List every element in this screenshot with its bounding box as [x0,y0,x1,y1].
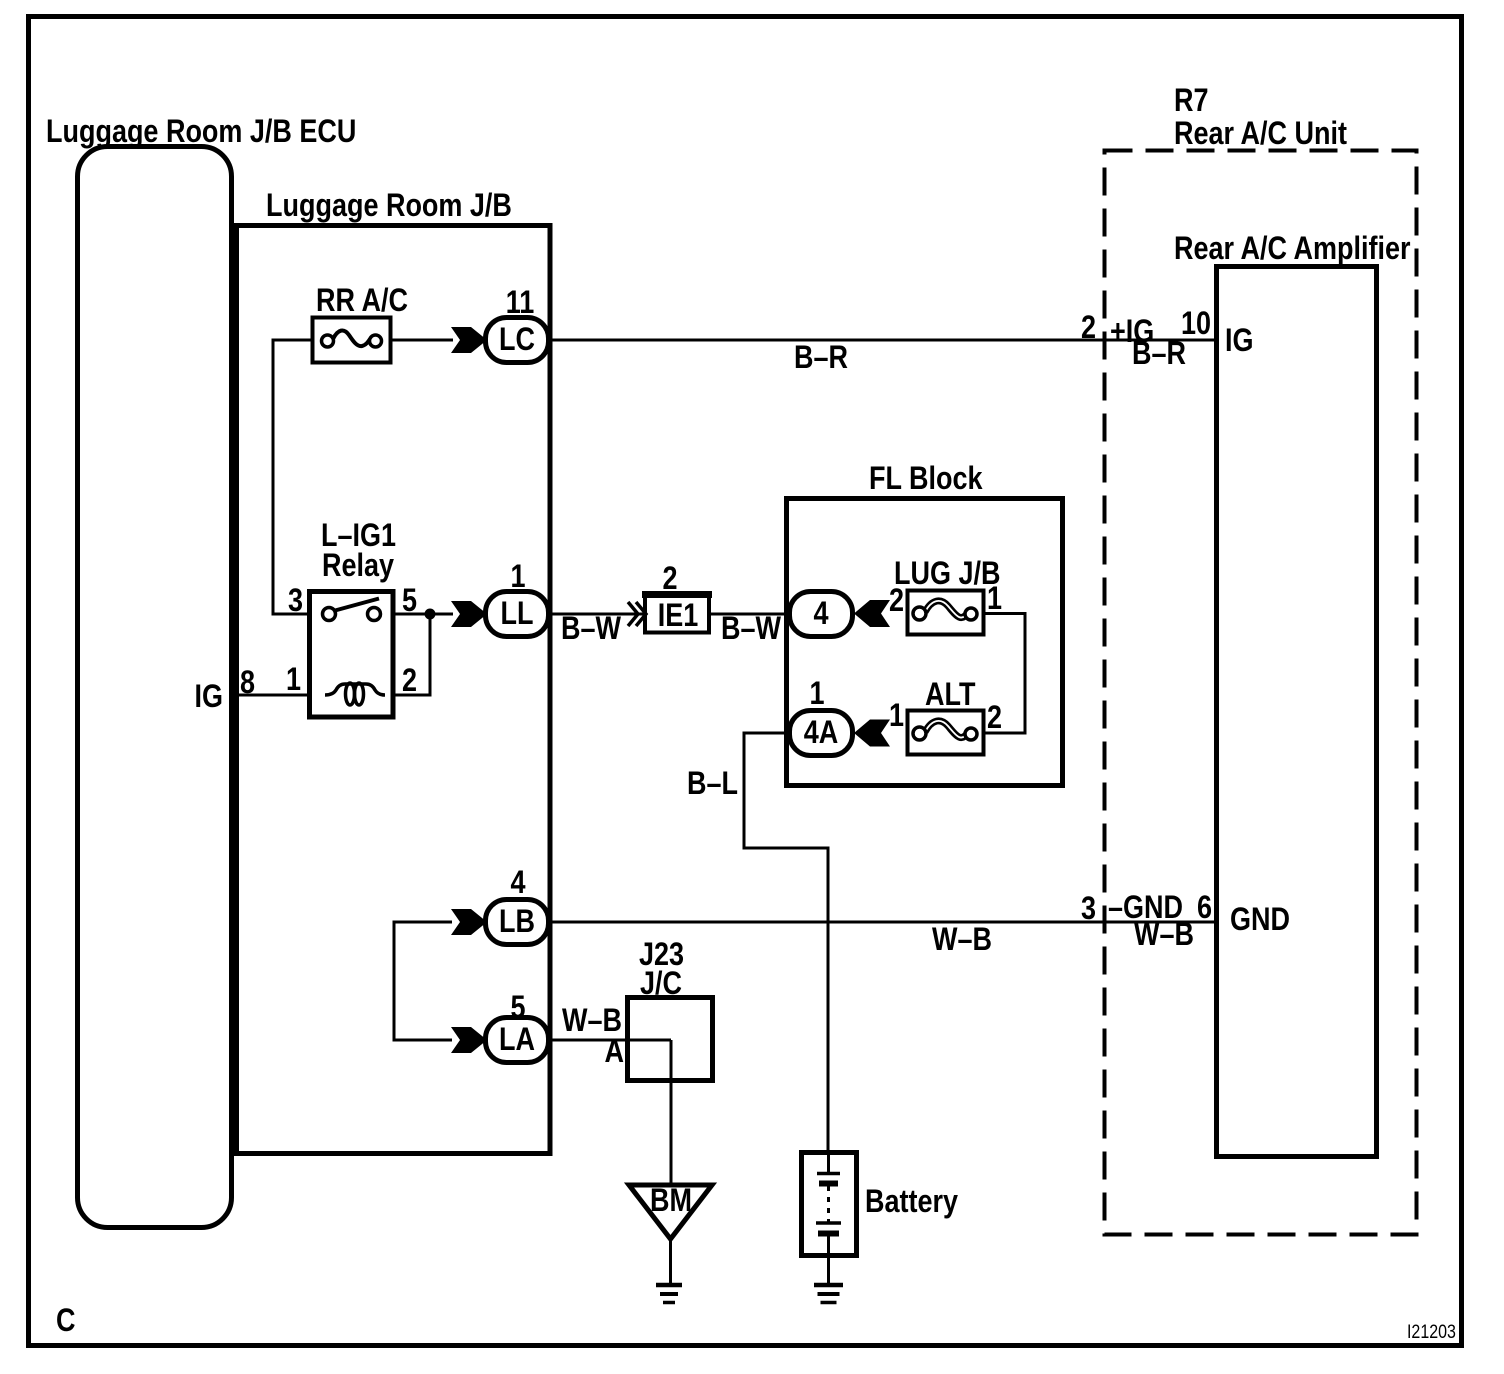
junction node dot [425,609,436,620]
connector LA [486,1018,549,1063]
FL Block box [787,499,1063,786]
svg-text:1: 1 [889,698,904,734]
svg-text:2: 2 [987,700,1002,736]
svg-text:W–B: W–B [1134,917,1194,953]
fusible link ALT [908,711,984,755]
svg-text:2: 2 [1081,310,1096,346]
fuse RR A/C [313,318,391,363]
svg-text:4: 4 [510,865,525,901]
wire B-R from LC to amplifier [548,339,1216,342]
svg-text:C: C [56,1303,75,1339]
svg-text:Relay: Relay [322,548,394,584]
svg-text:B–R: B–R [794,340,848,376]
connector LL pin 1 [486,559,549,637]
svg-text:1: 1 [987,581,1002,617]
svg-text:BM: BM [650,1183,692,1219]
svg-text:1: 1 [286,662,301,698]
svg-text:B–W: B–W [561,611,622,647]
wire junction down to relay pin 2 [393,614,430,695]
svg-text:3: 3 [1081,891,1096,927]
ground below BM [656,1285,682,1303]
svg-text:Battery: Battery [865,1184,958,1220]
connector 4 [790,592,853,637]
svg-text:B–R: B–R [1132,336,1186,372]
ECU block Luggage Room J/B ECU [78,147,232,1228]
svg-text:R7: R7 [1174,83,1209,119]
fusible link LUG J/B [908,591,984,635]
svg-text:IG: IG [1225,323,1254,359]
svg-text:LUG J/B: LUG J/B [894,556,1000,592]
svg-text:1: 1 [809,676,824,712]
svg-text:LA: LA [499,1022,535,1058]
amplifier block Rear A/C Amplifier [1217,267,1377,1157]
junction connector J23 J/C [628,998,713,1081]
svg-text:LL: LL [501,596,534,632]
svg-text:IG: IG [194,679,223,715]
connector arrow into 4A [854,720,890,747]
svg-text:ALT: ALT [925,677,975,713]
svg-text:4A: 4A [804,715,839,751]
wire B-W from LL to IE1 [548,613,645,616]
wire BM to ground [669,1239,672,1285]
connector 4A [790,711,853,756]
svg-text:W–B: W–B [932,922,992,958]
wire LUG J/B to ALT [983,614,1025,734]
svg-text:Rear A/C Amplifier: Rear A/C Amplifier [1174,231,1411,267]
svg-text:LC: LC [499,322,535,358]
connector arrow into LB [451,909,487,935]
svg-text:Luggage Room J/B: Luggage Room J/B [266,188,512,224]
svg-text:LB: LB [499,904,535,940]
svg-text:B–L: B–L [687,766,738,802]
node IE1 pin 2 [642,561,712,634]
connector LC pin 11 [486,285,549,363]
connector arrow into LL [451,601,487,627]
ground below battery [814,1285,843,1303]
connector arrow into 4 [854,600,890,627]
battery [802,1153,857,1286]
dashed enclosure R7 Rear A/C Unit [1105,151,1417,1235]
svg-text:4: 4 [813,596,828,632]
wire loop LB to LA [394,922,452,1040]
svg-text:A: A [605,1034,624,1070]
svg-text:3: 3 [288,583,303,619]
relay L-IG1 [310,592,394,718]
svg-text:RR A/C: RR A/C [316,283,408,319]
wire B-L from 4A to battery [744,733,828,1152]
svg-text:FL Block: FL Block [869,461,983,497]
svg-text:6: 6 [1197,890,1212,926]
connector arrow into LA [451,1027,487,1053]
svg-text:2: 2 [402,663,417,699]
relay coil [325,683,385,705]
wire IE1 to connector 4 [709,613,791,616]
svg-text:GND: GND [1230,902,1290,938]
wire IG from ECU to relay pin 1 [231,694,309,697]
svg-text:Rear A/C Unit: Rear A/C Unit [1174,116,1347,152]
wire fuse to connector LC [391,339,453,342]
svg-text:I21203: I21203 [1407,1321,1456,1343]
svg-text:B–W: B–W [721,611,782,647]
wire from fuse input down to relay pin 3 [273,340,312,614]
ground point BM triangle [629,1183,712,1239]
connector LB [486,900,549,945]
wire inside J/C down to BM [670,1040,673,1184]
wire W-B from LA to J/C [548,1039,671,1042]
double chevron splice [628,602,646,626]
connector arrow into LC [451,327,487,353]
svg-text:IE1: IE1 [658,598,699,634]
junction block Luggage Room J/B [237,226,551,1154]
wire relay pin 5 to LL [393,613,453,616]
wire W-B from LB to amplifier [548,921,1216,924]
